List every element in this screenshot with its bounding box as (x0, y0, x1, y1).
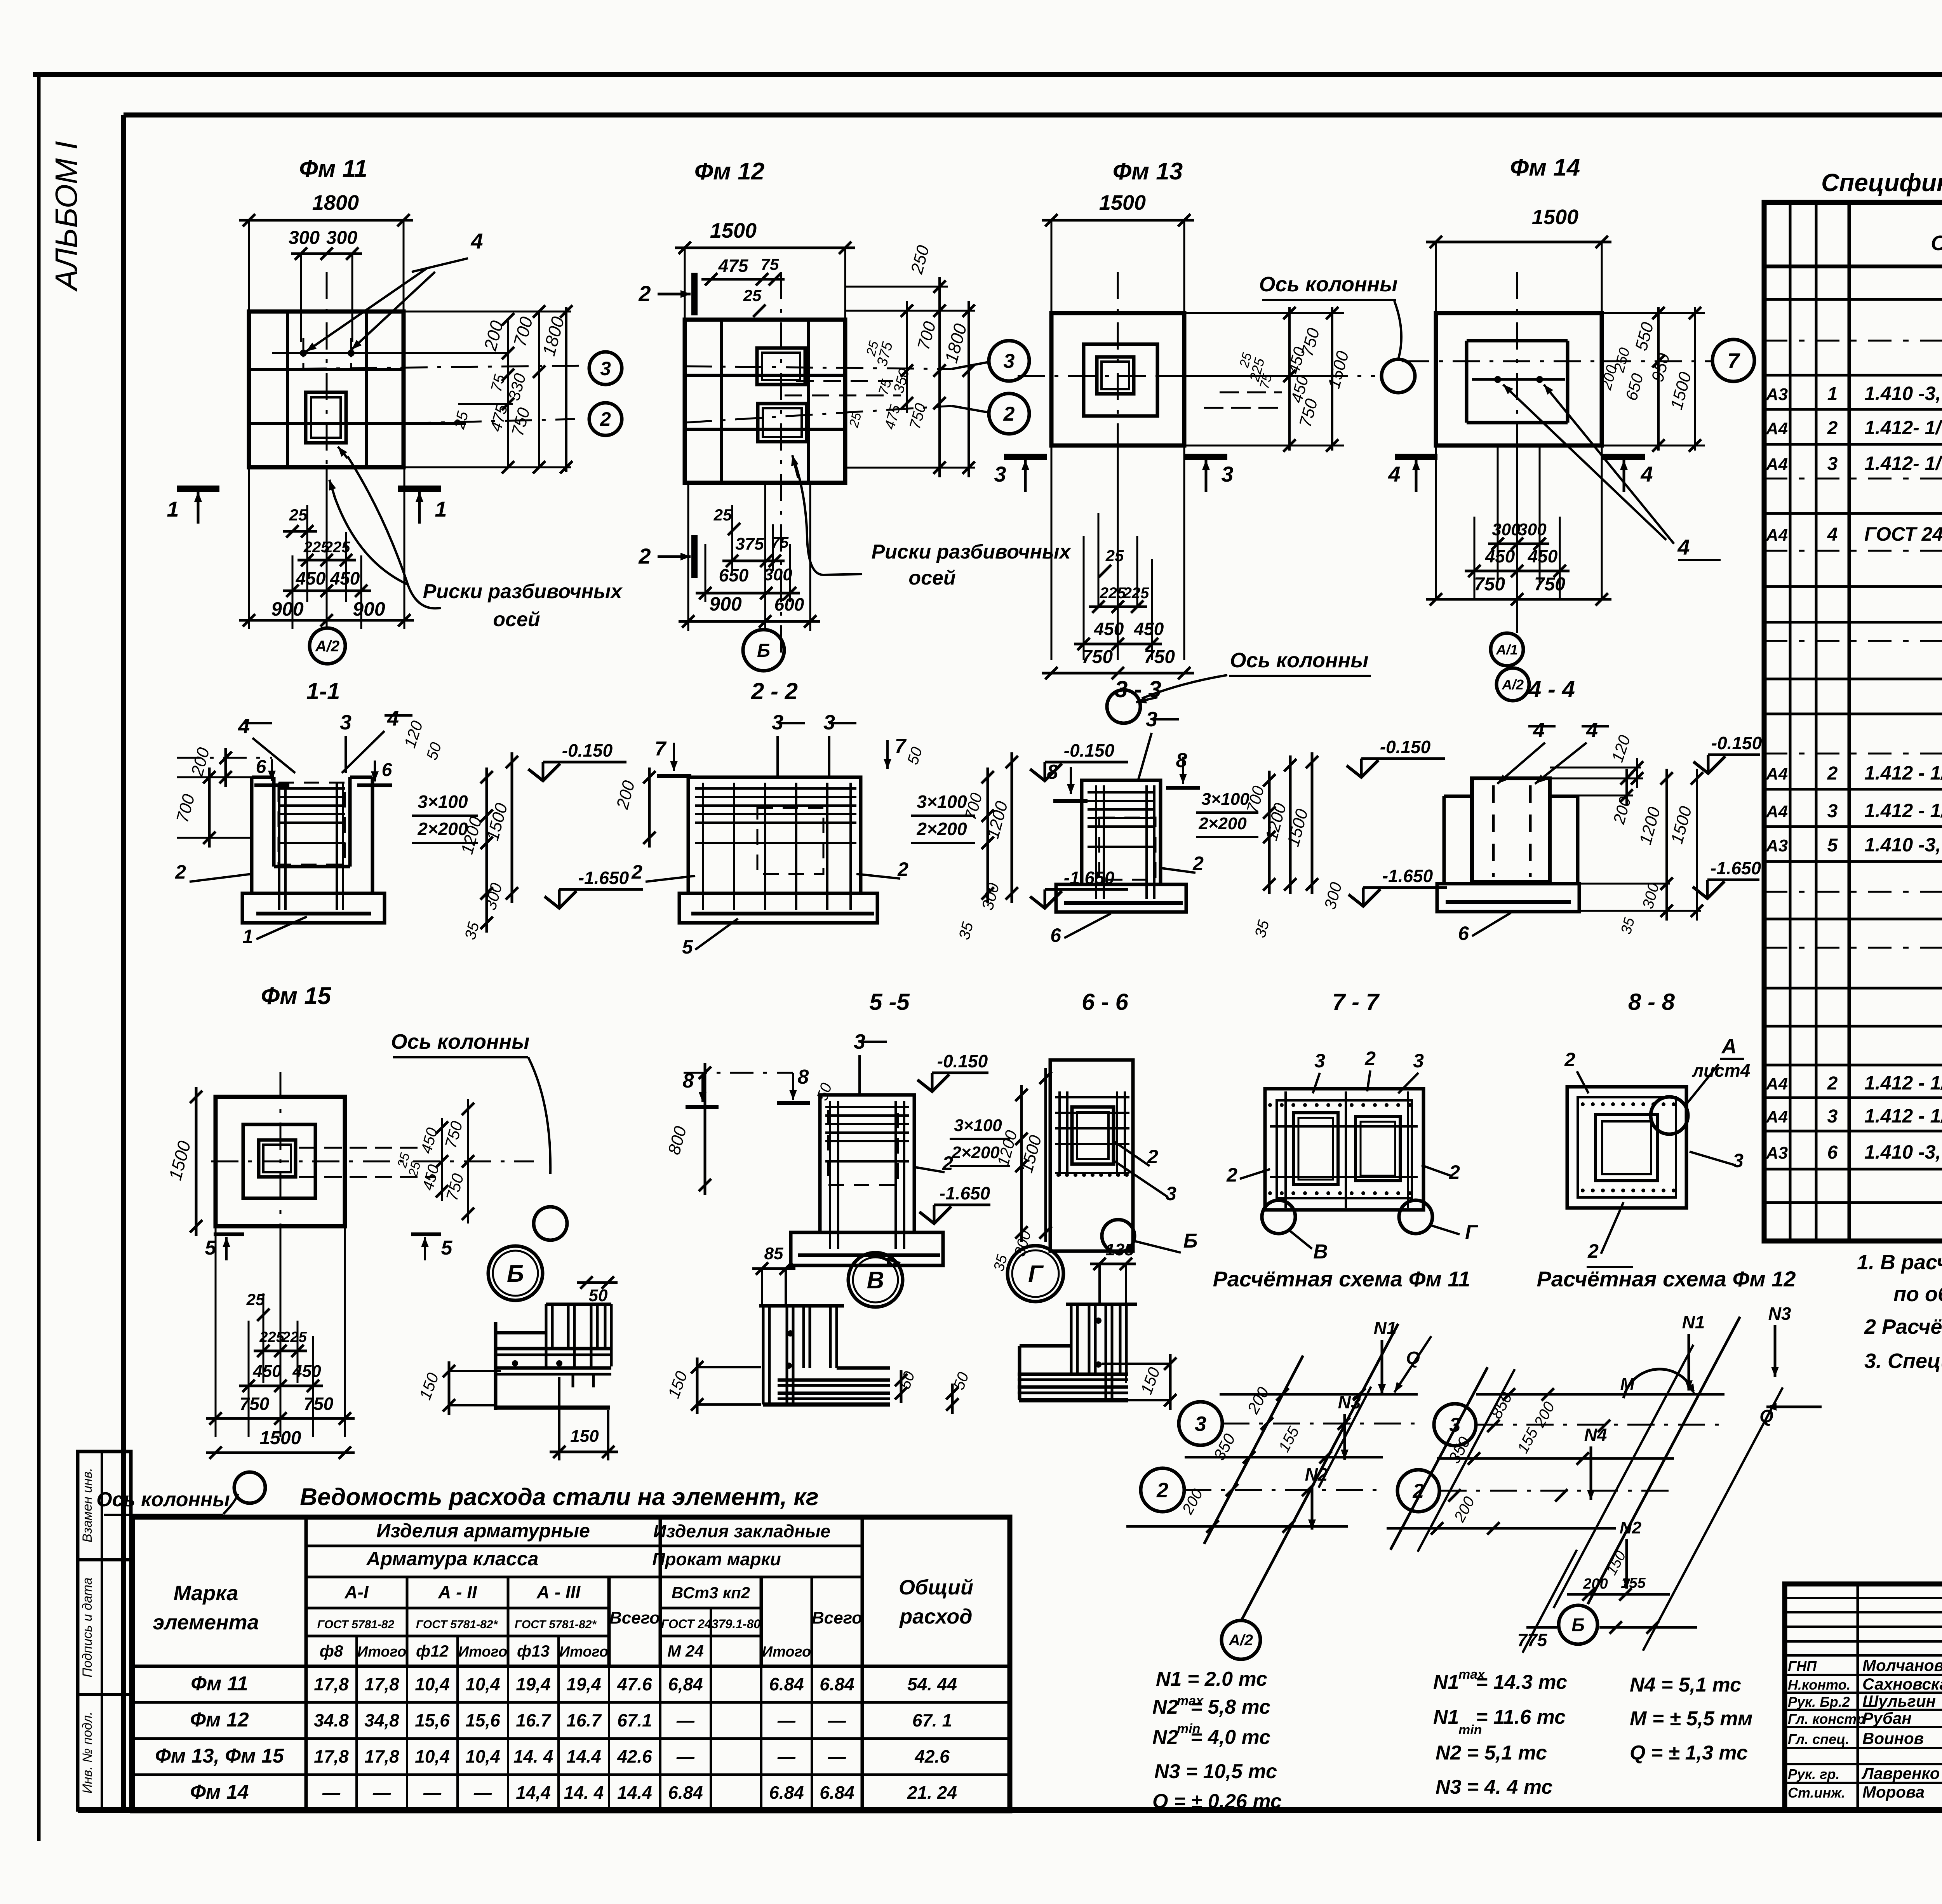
svg-text:25: 25 (1105, 546, 1124, 565)
svg-text:16.7: 16.7 (566, 1710, 602, 1730)
svg-text:1.410 -3, вып. 1: 1.410 -3, вып. 1 (1864, 383, 1942, 404)
svg-text:2: 2 (1156, 1479, 1168, 1502)
svg-text:Расчётная схема Фм 12: Расчётная схема Фм 12 (1537, 1267, 1796, 1291)
svg-text:N1: N1 (1682, 1312, 1705, 1332)
svg-text:ф8: ф8 (320, 1642, 343, 1660)
svg-text:16.7: 16.7 (516, 1710, 552, 1730)
svg-text:Обозначение: Обозначение (1931, 231, 1942, 255)
svg-text:1.410 -3, вып.1: 1.410 -3, вып.1 (1864, 1141, 1942, 1163)
svg-text:2: 2 (1003, 403, 1015, 425)
svg-text:750: 750 (240, 1394, 270, 1414)
svg-text:Фм 12: Фм 12 (694, 158, 764, 185)
svg-text:4: 4 (1586, 719, 1598, 742)
svg-text:1500: 1500 (260, 1428, 301, 1448)
svg-text:Б: Б (1571, 1615, 1585, 1636)
svg-text:ГОСТ 24379.1-80: ГОСТ 24379.1-80 (1864, 523, 1942, 545)
svg-text:А - II: А - II (438, 1582, 477, 1602)
svg-text:2: 2 (600, 408, 611, 430)
plan Fm11 (167, 155, 622, 664)
svg-text:N1 = 2.0 тс: N1 = 2.0 тс (1156, 1668, 1267, 1690)
svg-text:750: 750 (1474, 574, 1505, 595)
svg-text:А3: А3 (1766, 385, 1788, 404)
svg-text:3: 3 (1413, 1050, 1424, 1072)
svg-text:1.410 -3, вып. 1: 1.410 -3, вып. 1 (1864, 834, 1942, 856)
svg-text:А/2: А/2 (315, 638, 339, 655)
svg-text:А/2: А/2 (1502, 677, 1524, 693)
svg-text:расход: расход (899, 1605, 972, 1628)
svg-text:по обрезу фундамента на от: по обрезу фундамента на отм. -0,150. (1893, 1283, 1942, 1306)
svg-text:—: — (322, 1782, 341, 1803)
svg-text:10,4: 10,4 (465, 1674, 500, 1694)
svg-text:Г: Г (1465, 1221, 1478, 1244)
svg-text:750: 750 (1534, 574, 1565, 595)
svg-text:7: 7 (655, 738, 667, 760)
svg-text:2: 2 (1364, 1048, 1376, 1069)
svg-text:450: 450 (330, 568, 360, 588)
svg-text:Фм 13, Фм 15: Фм 13, Фм 15 (155, 1745, 284, 1767)
svg-text:1.412 - 1/77, вып. 3: 1.412 - 1/77, вып. 3 (1864, 762, 1942, 784)
svg-text:-0.150: -0.150 (937, 1051, 988, 1071)
svg-text:8: 8 (1047, 761, 1058, 783)
svg-text:67. 1: 67. 1 (912, 1710, 952, 1730)
svg-text:3: 3 (1827, 801, 1838, 821)
svg-text:-0.150: -0.150 (562, 740, 613, 761)
svg-text:—: — (473, 1782, 492, 1803)
svg-text:лист4: лист4 (1692, 1060, 1751, 1081)
svg-text:Q: Q (1759, 1406, 1773, 1426)
svg-text:-1.650: -1.650 (940, 1183, 990, 1203)
svg-text:3. Спецификация на Фм 14: 3. Спецификация на Фм 14 дана на листе 4… (1864, 1349, 1942, 1373)
svg-text:-0.150: -0.150 (1711, 733, 1762, 753)
svg-text:2: 2 (1192, 853, 1204, 874)
svg-text:6: 6 (1827, 1142, 1838, 1163)
svg-text:3 - 3: 3 - 3 (1115, 676, 1161, 702)
svg-text:1500: 1500 (710, 219, 757, 242)
svg-text:375: 375 (735, 534, 764, 553)
svg-text:Ось колонны: Ось колонны (96, 1488, 230, 1511)
svg-text:6.84: 6.84 (820, 1674, 854, 1694)
scheme Fm11 (1126, 1318, 1431, 1659)
svg-text:М = ± 5,5 тм: М = ± 5,5 тм (1630, 1707, 1752, 1730)
svg-text:1: 1 (1827, 384, 1838, 404)
svg-text:300: 300 (1518, 520, 1547, 539)
svg-text:А4: А4 (1766, 802, 1788, 821)
svg-text:34.8: 34.8 (314, 1710, 349, 1730)
svg-text:1.412 - 1/77, вып. 3: 1.412 - 1/77, вып. 3 (1864, 800, 1942, 821)
svg-text:1. В расчётных схемах даны н: 1. В расчётных схемах даны нормативные н… (1857, 1251, 1942, 1274)
svg-text:Сахновская: Сахновская (1862, 1675, 1942, 1693)
svg-text:N3 = 4. 4 тс: N3 = 4. 4 тс (1436, 1776, 1552, 1798)
section 6-6 (1050, 989, 1197, 1253)
svg-text:2 Расчётные схемы Фм 13 ÷ Ф: 2 Расчётные схемы Фм 13 ÷ Фм 15 см. лист… (1864, 1315, 1942, 1338)
svg-text:2: 2 (1226, 1164, 1237, 1186)
svg-text:900: 900 (271, 598, 304, 620)
svg-text:6 - 6: 6 - 6 (1082, 989, 1129, 1015)
svg-text:N3: N3 (1768, 1304, 1791, 1324)
svg-text:Ось колонны: Ось колонны (1259, 273, 1398, 296)
svg-text:N3: N3 (1338, 1392, 1361, 1412)
svg-text:В: В (1313, 1241, 1328, 1263)
svg-text:6.84: 6.84 (769, 1782, 804, 1803)
svg-text:А4: А4 (1766, 1074, 1788, 1093)
svg-text:N4: N4 (1584, 1425, 1607, 1445)
svg-text:Изделия закладные: Изделия закладные (653, 1521, 830, 1541)
scheme Fm11 values (1152, 1668, 1282, 1813)
svg-text:2×200: 2×200 (951, 1143, 1000, 1162)
svg-text:Риски разбивочных: Риски разбивочных (872, 541, 1072, 563)
svg-text:6.84: 6.84 (820, 1782, 854, 1803)
svg-text:= 4,0 тс: = 4,0 тс (1190, 1726, 1270, 1749)
svg-text:19,4: 19,4 (516, 1674, 551, 1694)
svg-text:Итого: Итого (559, 1644, 608, 1660)
svg-text:200: 200 (1583, 1576, 1608, 1592)
svg-text:Рубан: Рубан (1862, 1709, 1912, 1727)
svg-text:750: 750 (304, 1394, 334, 1414)
svg-text:А/2: А/2 (1229, 1632, 1253, 1649)
svg-text:Всего: Всего (812, 1608, 862, 1627)
svg-text:1.412 - 1/77, вып. 3: 1.412 - 1/77, вып. 3 (1864, 1072, 1942, 1094)
svg-text:А: А (1721, 1035, 1737, 1058)
svg-text:25: 25 (713, 506, 732, 524)
svg-text:Изделия арматурные: Изделия арматурные (376, 1520, 590, 1542)
svg-text:8 - 8: 8 - 8 (1628, 989, 1675, 1015)
riski label 1 (329, 447, 623, 631)
svg-text:225: 225 (324, 539, 350, 556)
svg-text:А/1: А/1 (1496, 642, 1518, 658)
svg-text:—: — (676, 1746, 695, 1767)
svg-text:Ст.инж.: Ст.инж. (1788, 1785, 1845, 1801)
svg-text:5 -5: 5 -5 (869, 989, 910, 1015)
svg-text:2: 2 (1827, 418, 1838, 439)
svg-text:3: 3 (600, 358, 611, 379)
svg-text:Б: Б (507, 1260, 524, 1287)
svg-text:Шульгин: Шульгин (1862, 1692, 1936, 1710)
svg-text:= 11.6 тс: = 11.6 тс (1476, 1706, 1566, 1728)
svg-text:Q = ± 0,26 тс: Q = ± 0,26 тс (1152, 1790, 1282, 1813)
svg-text:225: 225 (1100, 585, 1126, 602)
svg-text:АЛЬБОМ I: АЛЬБОМ I (49, 141, 84, 292)
svg-text:4: 4 (1533, 719, 1545, 742)
svg-text:ф13: ф13 (517, 1642, 550, 1660)
svg-text:4 - 4: 4 - 4 (1528, 676, 1575, 702)
svg-text:3: 3 (994, 462, 1006, 486)
svg-text:—: — (676, 1710, 695, 1730)
svg-text:450: 450 (252, 1362, 282, 1381)
svg-text:Итого: Итого (357, 1644, 406, 1660)
svg-text:2: 2 (1827, 763, 1838, 784)
svg-text:—: — (423, 1782, 442, 1803)
svg-text:1.412- 1/77, вып. 3: 1.412- 1/77, вып. 3 (1864, 417, 1942, 439)
section 3-3 (1047, 676, 1447, 946)
scheme Fm12 values (1433, 1667, 1752, 1798)
svg-text:15,6: 15,6 (415, 1710, 450, 1730)
svg-text:Фм 13: Фм 13 (1113, 158, 1183, 185)
plan Fm15 (96, 983, 567, 1515)
detail V (664, 1244, 972, 1414)
svg-text:225: 225 (259, 1329, 284, 1345)
svg-text:—: — (828, 1746, 846, 1767)
svg-text:450: 450 (296, 568, 326, 588)
svg-text:2×200: 2×200 (916, 819, 967, 839)
svg-text:Марка: Марка (174, 1582, 238, 1605)
svg-text:450: 450 (292, 1362, 321, 1381)
svg-text:42.6: 42.6 (617, 1746, 652, 1767)
svg-text:75: 75 (761, 255, 779, 273)
plan Fm14 (1388, 154, 1754, 701)
album label (49, 141, 84, 292)
svg-text:25: 25 (289, 506, 308, 524)
svg-text:—: — (777, 1710, 796, 1730)
svg-text:А-I: А-I (344, 1582, 369, 1602)
svg-text:ГОСТ 5781-82*: ГОСТ 5781-82* (416, 1618, 498, 1631)
svg-text:4: 4 (1388, 462, 1400, 486)
detail G (1008, 1240, 1176, 1410)
svg-text:300: 300 (1492, 520, 1521, 539)
svg-text:5: 5 (1827, 835, 1838, 856)
svg-text:450: 450 (1134, 619, 1164, 639)
svg-text:Ось колонны: Ось колонны (1230, 649, 1369, 672)
svg-text:Фм 12: Фм 12 (190, 1709, 249, 1731)
svg-text:17,8: 17,8 (314, 1674, 349, 1694)
svg-text:Фм 11: Фм 11 (191, 1673, 248, 1695)
svg-text:150: 150 (570, 1427, 599, 1446)
svg-text:N1: N1 (1433, 1671, 1459, 1693)
svg-text:осей: осей (908, 567, 955, 589)
svg-text:1.412- 1/77, вып. 3: 1.412- 1/77, вып. 3 (1864, 453, 1942, 474)
svg-text:6: 6 (1050, 924, 1061, 946)
svg-text:15,6: 15,6 (465, 1710, 500, 1730)
svg-text:2: 2 (638, 544, 651, 568)
svg-text:Г: Г (1028, 1261, 1044, 1288)
svg-text:8: 8 (798, 1066, 809, 1088)
svg-text:6: 6 (1458, 922, 1469, 944)
svg-text:25: 25 (246, 1290, 265, 1309)
spec table rows (1764, 278, 1942, 1231)
svg-text:3: 3 (1195, 1412, 1206, 1436)
svg-text:135: 135 (1105, 1240, 1134, 1259)
svg-text:1500: 1500 (1099, 191, 1146, 214)
svg-text:6.84: 6.84 (769, 1674, 804, 1694)
svg-text:Б: Б (1183, 1230, 1198, 1252)
svg-text:3: 3 (1166, 1183, 1176, 1204)
svg-text:N4 = 5,1 тс: N4 = 5,1 тс (1630, 1674, 1741, 1696)
svg-text:225: 225 (282, 1329, 307, 1345)
svg-text:10,4: 10,4 (415, 1674, 450, 1694)
svg-text:ГОСТ 24379.1-80: ГОСТ 24379.1-80 (661, 1617, 761, 1631)
svg-text:17,8: 17,8 (364, 1674, 399, 1694)
svg-text:ф12: ф12 (416, 1642, 449, 1660)
svg-text:2: 2 (1827, 1073, 1838, 1094)
svg-text:3×100: 3×100 (917, 792, 967, 812)
svg-text:Итого: Итого (762, 1644, 811, 1660)
svg-text:М 24: М 24 (667, 1642, 703, 1660)
svg-text:475: 475 (718, 256, 749, 276)
svg-text:450: 450 (1528, 546, 1558, 566)
svg-text:4: 4 (238, 715, 250, 738)
svg-text:900: 900 (709, 593, 742, 615)
svg-text:5: 5 (682, 936, 693, 958)
svg-text:Фм 11: Фм 11 (299, 155, 367, 182)
svg-text:1: 1 (242, 926, 253, 947)
svg-text:2: 2 (638, 281, 651, 306)
svg-text:N1: N1 (1433, 1706, 1459, 1728)
svg-text:ГОСТ 5781-82: ГОСТ 5781-82 (317, 1618, 395, 1631)
svg-text:7: 7 (1727, 348, 1740, 373)
spec table grid (1764, 202, 1942, 1241)
svg-text:А4: А4 (1766, 1107, 1788, 1126)
svg-text:225: 225 (1123, 585, 1149, 602)
svg-text:2: 2 (1564, 1049, 1575, 1070)
svg-text:-1.650: -1.650 (1711, 858, 1761, 878)
svg-text:N1: N1 (1374, 1318, 1397, 1338)
svg-text:А3: А3 (1766, 1143, 1788, 1163)
svg-text:4: 4 (1827, 524, 1838, 545)
svg-text:Фм 14: Фм 14 (1510, 154, 1580, 181)
svg-text:Лавренко: Лавренко (1861, 1764, 1940, 1782)
svg-text:25: 25 (743, 286, 762, 305)
svg-text:3: 3 (1004, 350, 1015, 372)
svg-text:75: 75 (771, 534, 789, 551)
scheme Fm12 (1387, 1304, 1822, 1653)
svg-text:17,8: 17,8 (364, 1746, 399, 1767)
svg-text:-0.150: -0.150 (1380, 737, 1431, 757)
svg-text:А3: А3 (1766, 836, 1788, 855)
svg-text:N2: N2 (1152, 1696, 1178, 1718)
svg-text:осей: осей (493, 608, 540, 631)
svg-text:Рук. Бр.2: Рук. Бр.2 (1788, 1694, 1850, 1710)
svg-text:N2: N2 (1305, 1464, 1328, 1485)
svg-text:Гл. спец.: Гл. спец. (1788, 1731, 1849, 1747)
svg-text:3: 3 (1827, 1106, 1838, 1127)
svg-text:Подпись и дата: Подпись и дата (80, 1577, 95, 1677)
svg-text:21. 24: 21. 24 (907, 1782, 957, 1803)
svg-text:6: 6 (382, 760, 392, 780)
svg-text:3×100: 3×100 (954, 1116, 1002, 1135)
svg-text:775: 775 (1517, 1630, 1548, 1650)
svg-text:Q = ± 1,3 тс: Q = ± 1,3 тс (1630, 1742, 1748, 1764)
svg-text:85: 85 (764, 1244, 783, 1263)
svg-text:2×200: 2×200 (417, 819, 468, 839)
svg-text:А4: А4 (1766, 455, 1788, 474)
svg-text:= 5,8 тс: = 5,8 тс (1190, 1696, 1270, 1718)
svg-text:7: 7 (895, 735, 907, 757)
svg-text:Н.конто.: Н.конто. (1788, 1677, 1851, 1693)
svg-text:А4: А4 (1766, 764, 1788, 783)
svg-text:А4: А4 (1766, 419, 1788, 438)
svg-text:ГОСТ 5781-82*: ГОСТ 5781-82* (515, 1618, 597, 1631)
svg-text:1800: 1800 (312, 191, 359, 214)
svg-text:-0.150: -0.150 (1064, 740, 1115, 761)
svg-text:ГНП: ГНП (1788, 1658, 1817, 1674)
svg-text:300: 300 (289, 228, 320, 248)
svg-text:А4: А4 (1766, 526, 1788, 545)
section 8-8 (1564, 989, 1750, 1267)
left inventory strip (78, 1451, 131, 1810)
svg-text:450: 450 (1485, 546, 1515, 566)
svg-text:А - III: А - III (536, 1582, 581, 1602)
svg-text:М: М (1620, 1375, 1635, 1394)
svg-text:Молчанов: Молчанов (1862, 1656, 1942, 1674)
svg-text:N2: N2 (1152, 1726, 1178, 1749)
section 1-1 (173, 678, 643, 947)
svg-text:650: 650 (719, 565, 749, 585)
svg-text:14.4: 14.4 (617, 1782, 652, 1803)
svg-text:Ведомость расхода стали на: Ведомость расхода стали на элемент, кг (300, 1484, 819, 1511)
riski label 2 (791, 455, 1071, 589)
svg-text:3×100: 3×100 (418, 792, 468, 812)
svg-text:1.412 - 1/77, вып. 3: 1.412 - 1/77, вып. 3 (1864, 1105, 1942, 1127)
svg-text:1: 1 (435, 497, 447, 521)
svg-text:10,4: 10,4 (415, 1746, 450, 1767)
svg-text:= 14.3 тс: = 14.3 тс (1476, 1671, 1567, 1693)
svg-text:4: 4 (387, 707, 399, 730)
plan Fm13 (994, 158, 1415, 723)
svg-text:В: В (867, 1267, 884, 1294)
svg-text:—: — (372, 1782, 391, 1803)
section 5-5 (665, 989, 1052, 1273)
svg-text:8: 8 (1176, 749, 1187, 772)
svg-text:750: 750 (1082, 647, 1113, 667)
svg-text:3: 3 (1221, 462, 1233, 486)
svg-text:элемента: элемента (153, 1611, 259, 1634)
svg-text:2: 2 (175, 861, 186, 883)
svg-text:42.6: 42.6 (914, 1746, 950, 1767)
svg-text:600: 600 (774, 594, 804, 614)
svg-text:Б: Б (757, 640, 770, 661)
svg-text:54. 44: 54. 44 (907, 1674, 957, 1694)
svg-text:Арматура класса: Арматура класса (366, 1548, 539, 1570)
svg-text:2×200: 2×200 (1198, 814, 1247, 833)
svg-text:3: 3 (1827, 454, 1838, 474)
svg-text:19,4: 19,4 (566, 1674, 601, 1694)
svg-text:67.1: 67.1 (617, 1710, 652, 1730)
svg-text:Прокат марки: Прокат марки (652, 1549, 781, 1569)
svg-text:Фм 15: Фм 15 (261, 983, 332, 1009)
svg-text:Итого: Итого (458, 1644, 507, 1660)
svg-text:N2: N2 (1620, 1518, 1642, 1537)
svg-text:750: 750 (1144, 647, 1175, 667)
svg-text:17,8: 17,8 (314, 1746, 349, 1767)
svg-text:3: 3 (340, 711, 352, 734)
svg-text:14.4: 14.4 (566, 1746, 601, 1767)
svg-text:2: 2 (1587, 1240, 1599, 1262)
svg-text:Всего: Всего (609, 1608, 660, 1627)
svg-text:-1.650: -1.650 (578, 868, 629, 888)
svg-text:—: — (777, 1746, 796, 1767)
svg-text:6,84: 6,84 (668, 1674, 703, 1694)
svg-text:Ось колонны: Ось колонны (391, 1030, 530, 1053)
svg-text:3: 3 (1733, 1150, 1744, 1171)
svg-text:Расчётная схема Фм 11: Расчётная схема Фм 11 (1213, 1267, 1470, 1291)
svg-text:4: 4 (1640, 462, 1653, 486)
svg-text:N3 = 10,5 тс: N3 = 10,5 тс (1154, 1760, 1277, 1783)
svg-text:300: 300 (764, 565, 792, 584)
svg-text:3×100: 3×100 (1201, 790, 1249, 809)
section 7-7 (1226, 989, 1478, 1263)
svg-text:Общий: Общий (899, 1576, 973, 1599)
svg-text:4: 4 (470, 229, 483, 253)
main title block (1785, 1584, 1942, 1810)
svg-text:450: 450 (1094, 619, 1124, 639)
svg-text:7 - 7: 7 - 7 (1332, 989, 1380, 1015)
svg-text:2: 2 (631, 861, 642, 883)
svg-text:47.6: 47.6 (617, 1674, 652, 1694)
svg-text:3: 3 (1314, 1050, 1325, 1072)
svg-text:1500: 1500 (1532, 205, 1578, 229)
svg-text:Гл. констр: Гл. констр (1788, 1711, 1865, 1727)
svg-text:Спецификация Фм 11 ÷ Фм 13, Фм: Спецификация Фм 11 ÷ Фм 13, Фм 15 (1821, 169, 1942, 197)
svg-text:Взамен инв.: Взамен инв. (80, 1468, 95, 1542)
